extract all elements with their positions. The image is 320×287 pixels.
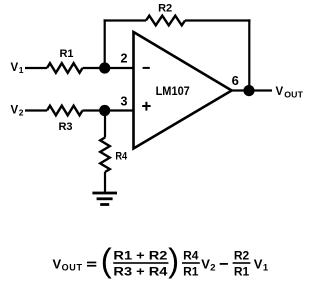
svg-text:3: 3 <box>121 95 128 109</box>
node junction pin 2 <box>99 62 110 73</box>
svg-text:R1 + R2: R1 + R2 <box>113 248 167 262</box>
wire junction up to feedback <box>104 19 106 68</box>
svg-text:6: 6 <box>232 73 239 88</box>
node output junction <box>243 85 254 96</box>
svg-text:OUT: OUT <box>284 89 303 99</box>
svg-text:R2: R2 <box>158 2 172 14</box>
svg-text:): ) <box>168 242 179 279</box>
svg-text:R4: R4 <box>183 248 199 262</box>
resistor R2 <box>146 2 185 25</box>
resistor R3 <box>47 106 83 133</box>
wire junction down to R4 <box>104 111 106 138</box>
op-amp U1 LM107 <box>134 32 232 149</box>
svg-text:R1: R1 <box>183 264 199 278</box>
svg-text:R3 + R4: R3 + R4 <box>113 264 167 278</box>
svg-text:R1: R1 <box>59 48 73 60</box>
svg-text:V: V <box>276 86 284 98</box>
wire feedback right vertical <box>248 19 250 90</box>
resistor R4 <box>100 138 128 173</box>
svg-text:R4: R4 <box>115 150 128 162</box>
wire V1 to R1 <box>25 67 47 69</box>
svg-text:1: 1 <box>19 65 24 75</box>
svg-text:V: V <box>53 257 62 272</box>
svg-text:OUT: OUT <box>62 263 83 273</box>
ground <box>92 192 117 206</box>
svg-text:1: 1 <box>263 263 269 274</box>
svg-text:V: V <box>11 62 19 74</box>
wire feedback top right segment <box>185 19 250 21</box>
svg-text:(: ( <box>101 242 112 279</box>
svg-text:V: V <box>254 257 263 272</box>
node junction pin 3 <box>99 105 110 116</box>
wire feedback top left segment <box>104 19 146 21</box>
svg-text:2: 2 <box>210 263 215 274</box>
wire R1 to pin 2 <box>83 67 134 69</box>
svg-text:V: V <box>11 105 19 117</box>
wire R3 to pin 3 <box>83 109 134 111</box>
svg-text:V: V <box>201 257 210 272</box>
wire R4 to ground <box>104 172 106 193</box>
svg-text:R2: R2 <box>234 248 250 262</box>
node V2 (input label) <box>11 105 24 118</box>
svg-text:R3: R3 <box>58 121 72 133</box>
wire op-amp output <box>232 89 272 91</box>
resistor R1 <box>47 48 83 73</box>
svg-text:R1: R1 <box>234 264 250 278</box>
wire V2 to R3 <box>25 109 47 111</box>
node VOUT (output label) <box>276 86 304 99</box>
svg-text:2: 2 <box>19 108 24 118</box>
svg-text:LM107: LM107 <box>156 84 190 98</box>
svg-text:2: 2 <box>121 51 128 65</box>
node V1 (input label) <box>11 62 24 75</box>
formula VOUT equation <box>53 242 269 279</box>
